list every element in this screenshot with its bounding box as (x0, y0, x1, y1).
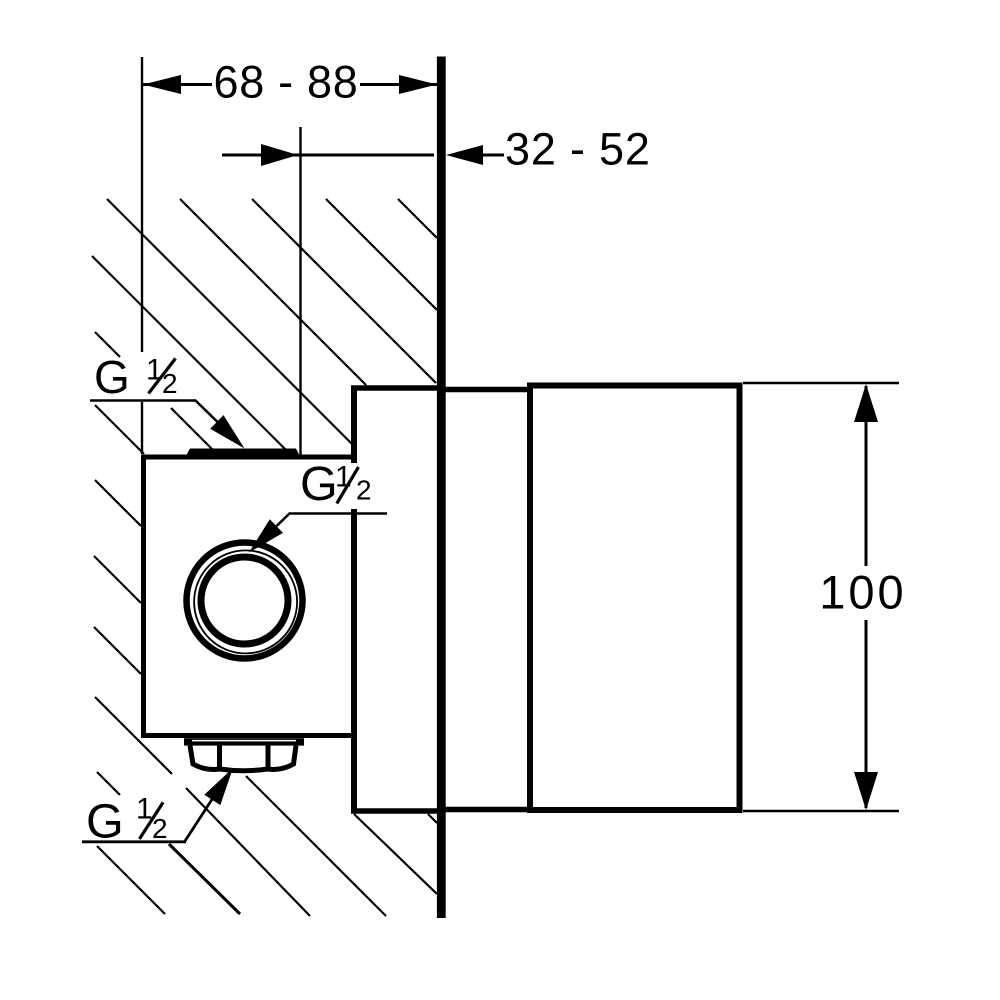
valve body outline (141, 455, 354, 460)
wall surface line (437, 57, 446, 919)
svg-text:2: 2 (356, 475, 372, 506)
svg-text:1: 1 (335, 461, 352, 494)
top inlet bar G1/2 (184, 449, 302, 460)
leader inner (289, 512, 387, 515)
svg-text:G: G (300, 457, 338, 511)
supply connection thin circle (194, 550, 297, 653)
flange bottom edge (351, 808, 441, 814)
dimension 100 line (865, 386, 868, 566)
neck top edge (441, 387, 530, 393)
dimension 32-52 shaft (222, 154, 434, 157)
dimension 100 top arrowhead (854, 384, 878, 422)
extension line left (x=142) (141, 57, 143, 352)
wall hatching (92, 199, 437, 916)
flange top edge (351, 385, 441, 391)
neck bottom edge (441, 807, 530, 813)
leader top-left (90, 399, 196, 402)
dimension 68-88 left arrowhead (143, 75, 181, 94)
svg-text:2: 2 (162, 368, 178, 399)
svg-text:1: 1 (146, 354, 163, 387)
svg-text:2: 2 (152, 813, 168, 844)
dimension 100 bottom arrowhead (854, 772, 878, 810)
supply connection circle outer ring (187, 543, 303, 659)
dimension 68-88 shaft (143, 83, 212, 86)
hatch line (thicker) below bottom label (169, 844, 240, 914)
bottom outlet nut flange (184, 738, 304, 745)
front body rectangle (530, 386, 740, 811)
svg-text:32 - 52: 32 - 52 (505, 124, 651, 175)
extension line mid (x=300) (299, 127, 301, 456)
leader bottom (82, 840, 186, 843)
supply connection inner ring (201, 557, 288, 644)
svg-text:68 - 88: 68 - 88 (214, 57, 359, 108)
dimension 32-52 inner arrowhead (261, 144, 298, 166)
svg-text:G: G (94, 351, 130, 403)
extension lines for 100 (743, 382, 899, 385)
dimension 68-88 right arrowhead (399, 75, 437, 94)
body right / flange left edge (with text gap) (351, 386, 357, 463)
bottom outlet nut hexagon (190, 746, 296, 771)
svg-text:100: 100 (819, 566, 906, 619)
dimension 32-52 outer arrowhead (446, 145, 483, 165)
